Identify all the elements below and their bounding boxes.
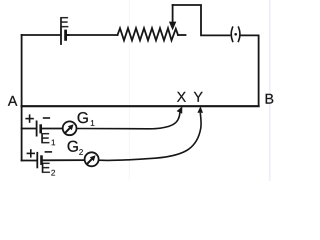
label + (E2 positive): [27, 150, 34, 157]
resistor: rheostat zigzag: [118, 28, 179, 40]
node Y label: [194, 92, 203, 102]
galvanometer G1: [63, 121, 77, 135]
wire: battery E1 to galvanometer G1: [42, 128, 63, 130]
wire: left vertical column: [21, 35, 23, 161]
node X label: [177, 92, 186, 102]
wire: top rail, corner to battery E: [22, 34, 60, 36]
rheostat wiper arrow: [169, 5, 176, 30]
battery E2: [37, 153, 41, 168]
label E2: [42, 163, 55, 176]
label + (E1 positive): [26, 115, 33, 122]
wire: G2 output curving up to Y with arrow: [99, 106, 203, 160]
wire: key to right corner: [241, 34, 258, 36]
wire: branch 1 from column to battery E1: [22, 128, 36, 130]
label E1: [41, 133, 55, 145]
key K (plug key): [231, 27, 240, 41]
label - (E1 negative): [44, 117, 50, 119]
label - (E2 negative): [45, 151, 51, 153]
wire: battery E2 to galvanometer G2: [43, 159, 85, 161]
battery E: [61, 28, 69, 44]
wire: G1 output curving up to X with arrow: [77, 106, 183, 128]
wire: wiper loop to key: [173, 5, 230, 35]
wire: branch 2 from column to battery E2: [22, 160, 37, 162]
galvanometer G2: [85, 152, 99, 166]
wire: rheostat right stub: [178, 34, 186, 36]
label G1: [78, 112, 95, 126]
label E: [60, 17, 68, 27]
label G2: [68, 141, 83, 155]
battery E1: [37, 121, 41, 135]
wire: right vertical to B: [258, 35, 260, 106]
wire: main rail A to B: [22, 105, 259, 107]
node A label: [8, 96, 17, 106]
node B label: [266, 94, 274, 104]
wire: battery E to rheostat: [68, 34, 118, 36]
